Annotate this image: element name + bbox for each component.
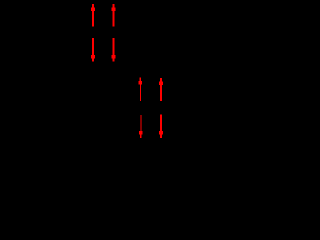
spin-down arrow D2 (bottom cluster, right) <box>159 114 163 138</box>
spin-up arrow A2 (top cluster, right) <box>112 4 116 26</box>
spin-up arrow C1 (bottom cluster, left, thin) <box>139 78 142 102</box>
spin-up arrow C2 (bottom cluster, right) <box>159 78 163 101</box>
spin-down arrow B2 (top cluster, right) <box>112 38 116 62</box>
spin-up arrow A1 (top cluster, left) <box>91 4 95 26</box>
spin diagram canvas <box>0 0 291 143</box>
spin-down arrow B1 (top cluster, left) <box>91 38 95 62</box>
spin-down arrow D1 (bottom cluster, left, thin) <box>139 115 142 138</box>
